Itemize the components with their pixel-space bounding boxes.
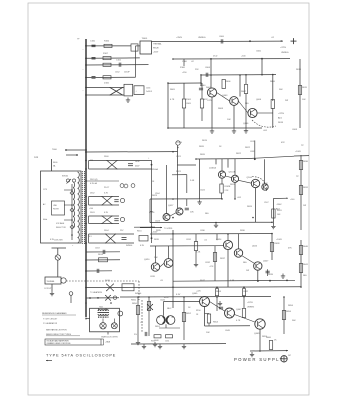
svg-text:2.2K: 2.2K — [225, 190, 230, 192]
svg-text:DCD: DCD — [213, 56, 218, 58]
svg-text:C623: C623 — [155, 221, 161, 223]
svg-text:C600: C600 — [256, 51, 262, 53]
svg-text:Q627: Q627 — [263, 261, 269, 263]
svg-text:C163: C163 — [146, 88, 150, 90]
svg-text:R620: R620 — [199, 146, 205, 148]
svg-text:5.6K: 5.6K — [190, 180, 195, 182]
svg-text:D164: D164 — [104, 230, 109, 232]
svg-text:47K: 47K — [288, 248, 292, 250]
svg-text:22K: 22K — [195, 69, 199, 71]
svg-text:2.2K: 2.2K — [196, 252, 201, 254]
svg-text:Q645: Q645 — [192, 293, 198, 295]
svg-text:C640: C640 — [154, 340, 159, 342]
svg-text:R635: R635 — [156, 230, 162, 232]
svg-text:R160A: R160A — [152, 168, 159, 171]
svg-text:Q161A: Q161A — [209, 167, 216, 170]
svg-text:2W: 2W — [285, 100, 288, 102]
svg-text:+500: +500 — [241, 56, 246, 58]
svg-text:6.3V: 6.3V — [176, 294, 181, 296]
svg-text:1W: 1W — [303, 205, 306, 207]
svg-text:R635: R635 — [154, 239, 160, 241]
svg-text:VOLTAGE: VOLTAGE — [56, 222, 65, 225]
svg-text:C641: C641 — [160, 300, 166, 302]
svg-text:R626: R626 — [247, 206, 253, 208]
svg-text:+325V: +325V — [247, 302, 254, 304]
svg-text:SEL: SEL — [243, 262, 248, 264]
svg-text:ADJ: ADJ — [278, 117, 282, 120]
svg-text:Q617: Q617 — [168, 205, 174, 207]
svg-text:R630: R630 — [303, 161, 309, 163]
svg-text:+: + — [83, 90, 84, 92]
svg-text:R656: R656 — [286, 311, 292, 313]
svg-text:1K: 1K — [196, 314, 199, 316]
svg-text:R606: R606 — [226, 81, 232, 83]
svg-text:R620: R620 — [200, 154, 206, 156]
svg-text:.01: .01 — [140, 322, 144, 324]
svg-text:SELECTOR: SELECTOR — [56, 227, 66, 229]
svg-text:56K: 56K — [279, 89, 283, 91]
svg-text:FILTER: FILTER — [53, 209, 59, 211]
svg-text:C621: C621 — [176, 156, 182, 158]
svg-text:+100V: +100V — [176, 142, 183, 144]
svg-text:SEE PARTS LIST FOR: SEE PARTS LIST FOR — [46, 329, 67, 332]
svg-text:56K: 56K — [292, 320, 296, 322]
svg-text:R605: R605 — [170, 89, 176, 91]
svg-text:Q625: Q625 — [252, 246, 258, 248]
svg-text:① CRT CIRCUIT: ① CRT CIRCUIT — [43, 318, 58, 321]
svg-text:TO HEATERS: TO HEATERS — [90, 291, 103, 294]
svg-text:C160: C160 — [90, 41, 96, 43]
svg-text:1K: 1K — [274, 340, 277, 342]
svg-text:+100V: +100V — [276, 239, 283, 241]
svg-text:AC: AC — [43, 203, 46, 206]
svg-text:R167: R167 — [103, 53, 109, 55]
svg-text:10UF: 10UF — [135, 161, 140, 163]
svg-text:6.3V 4A: 6.3V 4A — [90, 182, 97, 185]
svg-text:Q606: Q606 — [256, 99, 262, 101]
svg-text:UNREG: UNREG — [281, 52, 289, 54]
svg-text:3A: 3A — [53, 165, 56, 168]
svg-text:C635: C635 — [150, 276, 156, 278]
svg-text:R156: R156 — [196, 310, 201, 312]
svg-text:115V 230V: 115V 230V — [54, 240, 64, 242]
svg-text:SW160: SW160 — [62, 176, 68, 178]
svg-text:R614: R614 — [296, 69, 302, 71]
svg-text:TK601: TK601 — [142, 38, 149, 40]
svg-text:450V: 450V — [135, 166, 140, 168]
svg-text:R659: R659 — [262, 336, 268, 338]
svg-text:C631: C631 — [186, 239, 192, 241]
svg-text:+GAIN: +GAIN — [105, 341, 111, 344]
svg-text:R622: R622 — [236, 153, 242, 155]
svg-text:6.3V: 6.3V — [104, 193, 109, 195]
svg-text:RELAY: RELAY — [153, 47, 160, 50]
svg-text:R161: R161 — [137, 231, 142, 233]
svg-text:1K: 1K — [152, 181, 155, 183]
svg-text:D162: D162 — [90, 193, 95, 195]
svg-text:C604: C604 — [205, 67, 211, 69]
svg-text:CUTOUT: CUTOUT — [44, 288, 52, 290]
svg-text:Q647: Q647 — [236, 309, 242, 311]
svg-text:R639: R639 — [268, 274, 274, 276]
svg-text:C166: C166 — [182, 61, 188, 63]
svg-text:R162B: R162B — [225, 186, 232, 188]
svg-text:R640: R640 — [303, 246, 309, 248]
svg-text:+225V: +225V — [280, 47, 287, 49]
svg-text:C608: C608 — [292, 129, 298, 131]
svg-text:R650: R650 — [132, 303, 138, 305]
svg-text:R651: R651 — [155, 326, 161, 328]
svg-text:.01: .01 — [204, 240, 208, 242]
svg-text:.05: .05 — [160, 280, 164, 282]
svg-text:TP: TP — [301, 145, 304, 147]
svg-text:TP: TP — [296, 176, 299, 178]
svg-text:R631: R631 — [303, 187, 309, 189]
svg-text:117V: 117V — [43, 189, 48, 191]
svg-text:D610: D610 — [105, 280, 111, 282]
svg-text:+100: +100 — [290, 199, 294, 201]
svg-text:D604: D604 — [206, 87, 212, 89]
svg-text:UNREG: UNREG — [247, 307, 255, 309]
svg-text:R608: R608 — [218, 108, 224, 110]
svg-text:+100V: +100V — [295, 151, 302, 153]
svg-text:C162: C162 — [115, 72, 120, 74]
svg-text:+100: +100 — [89, 208, 93, 210]
svg-text:R619: R619 — [202, 140, 208, 142]
svg-text:D160: D160 — [104, 156, 109, 158]
svg-text:10K: 10K — [190, 212, 194, 214]
svg-text:+: + — [136, 91, 138, 93]
svg-text:C622: C622 — [200, 190, 206, 192]
svg-text:10K: 10K — [277, 214, 281, 216]
svg-text:VOLTAGES AND WAVEFORMS: VOLTAGES AND WAVEFORMS — [47, 340, 69, 343]
svg-text:+350: +350 — [182, 72, 187, 74]
svg-text:C615: C615 — [250, 141, 256, 143]
svg-text:F600: F600 — [53, 162, 57, 164]
svg-text:R654: R654 — [213, 322, 219, 324]
svg-text:R624: R624 — [230, 184, 236, 186]
svg-text:R641: R641 — [303, 264, 309, 266]
svg-text:R622: R622 — [245, 147, 251, 149]
svg-text:R642: R642 — [200, 280, 206, 282]
svg-text:4.7K: 4.7K — [170, 99, 175, 101]
svg-text:TO HTRS: TO HTRS — [164, 228, 173, 230]
svg-text:⑥ CALIBRATOR: ⑥ CALIBRATOR — [43, 322, 58, 325]
svg-text:C163: C163 — [95, 248, 100, 250]
svg-text:C630: C630 — [200, 230, 206, 232]
svg-text:R637: R637 — [220, 258, 226, 260]
svg-text:+: + — [83, 69, 84, 71]
svg-text:D165: D165 — [104, 83, 110, 85]
svg-text:R618: R618 — [278, 122, 284, 124]
svg-text:567: 567 — [288, 355, 291, 357]
svg-text:TP: TP — [77, 39, 80, 41]
svg-text:4.7K: 4.7K — [236, 320, 241, 322]
svg-text:C600: C600 — [219, 36, 225, 38]
svg-text:PILOT: PILOT — [104, 187, 110, 189]
svg-text:R621: R621 — [176, 171, 182, 173]
svg-text:-150V: -150V — [276, 204, 282, 206]
svg-text:6.8K: 6.8K — [230, 280, 235, 282]
svg-text:2x20UF: 2x20UF — [146, 91, 152, 93]
svg-text:10K: 10K — [154, 257, 158, 259]
svg-text:1K: 1K — [188, 307, 191, 309]
svg-text:22K: 22K — [170, 239, 174, 241]
svg-text:Q164: Q164 — [247, 177, 253, 179]
svg-text:LINE: LINE — [53, 205, 58, 207]
svg-text:10K: 10K — [227, 119, 231, 121]
svg-text:.02: .02 — [271, 37, 275, 39]
svg-text:POWER SUPPLY: POWER SUPPLY — [234, 357, 284, 362]
svg-text:22V: 22V — [120, 230, 124, 232]
svg-text:5%: 5% — [134, 334, 137, 336]
svg-text:SEL: SEL — [205, 213, 210, 215]
svg-text:THERMAL: THERMAL — [153, 43, 162, 46]
svg-text:10K: 10K — [206, 332, 210, 334]
svg-text:SEMICONDUCTOR TYPES: SEMICONDUCTOR TYPES — [46, 334, 72, 336]
svg-text:UNREG: UNREG — [198, 37, 206, 39]
svg-text:4.7K: 4.7K — [210, 266, 215, 268]
svg-text:.001: .001 — [263, 130, 268, 132]
svg-text:10K: 10K — [302, 99, 306, 101]
svg-text:+225V: +225V — [278, 113, 285, 115]
svg-text:ADJ: ADJ — [276, 208, 280, 211]
svg-text:R623: R623 — [152, 195, 158, 197]
svg-text:TYPE 547A OSCILLOSCOPE: TYPE 547A OSCILLOSCOPE — [46, 354, 116, 358]
svg-text:.001: .001 — [237, 197, 242, 199]
svg-text:1W: 1W — [246, 270, 249, 272]
svg-text:PWR: PWR — [34, 157, 39, 159]
svg-text:.02: .02 — [191, 61, 195, 63]
svg-text:C161: C161 — [116, 60, 122, 62]
svg-text:SW600: SW600 — [126, 245, 132, 247]
svg-text:R638: R638 — [275, 243, 281, 245]
svg-text:1K: 1K — [219, 146, 222, 148]
svg-text:C605: C605 — [186, 103, 192, 105]
svg-text:R636: R636 — [240, 230, 246, 232]
svg-text:+: + — [148, 158, 150, 160]
svg-text:R656: R656 — [288, 305, 294, 307]
svg-text:125UF: 125UF — [124, 72, 131, 74]
svg-text:R652: R652 — [186, 313, 192, 315]
svg-text:+350V: +350V — [176, 37, 183, 39]
svg-text:SEL: SEL — [303, 275, 308, 277]
svg-text:REFERENCE DIAGRAMS: REFERENCE DIAGRAMS — [42, 312, 67, 315]
svg-text:R607: R607 — [241, 91, 247, 93]
svg-text:+: + — [83, 49, 84, 51]
svg-text:R610: R610 — [270, 81, 276, 83]
svg-text:6.3V: 6.3V — [140, 245, 145, 247]
svg-text:NE-2: NE-2 — [167, 308, 171, 310]
svg-text:R614: R614 — [98, 254, 104, 256]
svg-text:6.3V: 6.3V — [104, 212, 109, 214]
svg-text:60Hz: 60Hz — [43, 219, 47, 221]
svg-text:R166: R166 — [104, 41, 110, 43]
svg-text:R650: R650 — [131, 300, 137, 302]
svg-text:GRATICULE LIGHTS: GRATICULE LIGHTS — [101, 335, 119, 338]
svg-text:Q620: Q620 — [144, 259, 150, 261]
svg-text:R168: R168 — [180, 67, 186, 69]
svg-text:47K: 47K — [281, 142, 285, 144]
svg-text:C645: C645 — [225, 330, 231, 332]
svg-text:R615: R615 — [302, 87, 308, 89]
svg-text:+225: +225 — [196, 291, 202, 293]
svg-text:C167: C167 — [264, 202, 269, 204]
svg-text:T601: T601 — [99, 306, 103, 308]
svg-text:D163: D163 — [90, 212, 95, 214]
svg-text:+325V: +325V — [153, 52, 159, 54]
svg-text:Q649: Q649 — [254, 333, 260, 335]
svg-text:SW600: SW600 — [135, 293, 141, 295]
svg-text:C632: C632 — [205, 262, 211, 264]
svg-text:T600: T600 — [52, 149, 58, 151]
svg-text:6.3: 6.3 — [89, 236, 92, 238]
svg-text:+: + — [72, 245, 74, 247]
svg-text:C161: C161 — [165, 341, 169, 343]
svg-text:THERMAL: THERMAL — [47, 280, 55, 283]
svg-text:R161: R161 — [186, 99, 192, 101]
